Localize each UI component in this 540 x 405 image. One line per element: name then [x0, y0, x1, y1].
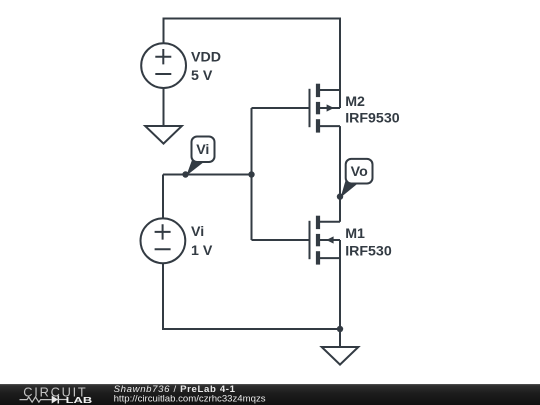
- voltage source Vi (V2): [141, 218, 186, 263]
- label M1: [345, 226, 392, 259]
- logo CIRCUIT: [23, 384, 87, 399]
- footer text line 2: [114, 393, 266, 404]
- node bottom junction: [337, 326, 343, 332]
- node label Vo (flag): [341, 159, 373, 198]
- wire M1 gate: [252, 239, 309, 241]
- M1 bulk arrow (points left: NMOS): [320, 239, 340, 241]
- M1 drain pin: [318, 221, 340, 223]
- wire junction to ground: [339, 329, 341, 347]
- wire M2 gate: [252, 107, 309, 109]
- transistor M2 (PMOS IRF9530): [310, 84, 341, 133]
- M1 source pin: [318, 257, 340, 259]
- M1 gate bar: [309, 221, 311, 259]
- VDD minus mark: [155, 73, 171, 75]
- M1 channel segments: [316, 216, 320, 229]
- ground (below VDD): [145, 126, 182, 144]
- voltage source VDD (V1): [141, 43, 186, 88]
- logo LAB: [66, 396, 93, 405]
- svg-text:VDD: VDD: [191, 50, 221, 66]
- M2 bulk arrow (points right: PMOS): [320, 107, 340, 109]
- node junction gate bus: [248, 171, 254, 177]
- wire M2 drain to M1 drain: [339, 126, 341, 222]
- footer bar: [0, 384, 540, 405]
- svg-text:Vi: Vi: [191, 224, 204, 240]
- M2 source pin: [318, 89, 340, 91]
- label M2: [345, 94, 400, 126]
- svg-text:Vi: Vi: [196, 142, 209, 158]
- svg-text:Vo: Vo: [351, 164, 368, 180]
- node label Vi (flag): [186, 137, 214, 176]
- svg-text:5 V: 5 V: [191, 68, 213, 84]
- svg-text:LAB: LAB: [66, 396, 93, 405]
- wire node Vi horizontal: [163, 174, 252, 176]
- svg-text:M1: M1: [345, 226, 365, 242]
- wire gate bus vertical: [251, 108, 253, 240]
- logo resistor-diode squiggle: [20, 396, 67, 404]
- wire Vi source to node: [162, 175, 164, 219]
- M2 drain pin: [318, 125, 340, 127]
- wire VDD top rail: [164, 19, 341, 109]
- node Vi anchor dot: [182, 171, 188, 177]
- wire VDD to ground: [163, 88, 165, 126]
- transistor M1 (NMOS IRF530): [310, 216, 341, 265]
- M2 channel segments: [316, 84, 320, 97]
- Vi plus mark: [155, 224, 171, 239]
- Vi minus mark: [155, 248, 171, 250]
- ground (bottom right): [322, 347, 359, 365]
- node Vo junction: [337, 193, 343, 199]
- VDD plus mark: [155, 49, 171, 64]
- label VDD value: [191, 50, 221, 85]
- wire M1 source to bottom: [339, 240, 341, 329]
- svg-text:M2: M2: [345, 94, 365, 110]
- svg-text:IRF9530: IRF9530: [345, 110, 400, 126]
- svg-text:IRF530: IRF530: [345, 243, 392, 259]
- label Vi value: [191, 224, 213, 259]
- svg-text:http://circuitlab.com/czrhc33z: http://circuitlab.com/czrhc33z4mqzs: [114, 393, 266, 404]
- M2 gate bar: [309, 89, 311, 127]
- footer text line 1: [114, 384, 236, 395]
- svg-text:1 V: 1 V: [191, 243, 213, 259]
- wire Vi to bottom rail: [163, 263, 340, 329]
